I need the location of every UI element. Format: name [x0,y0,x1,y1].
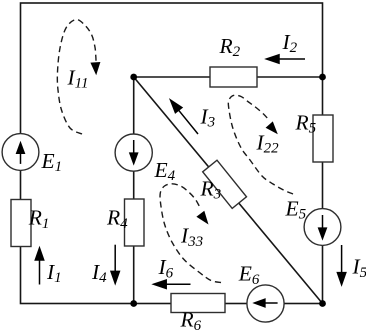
resistor R2 [210,67,257,87]
source E1 [2,134,39,171]
svg-text:E6: E6 [238,262,260,288]
E6 arrow left [262,302,278,304]
svg-text:E4: E4 [154,158,176,184]
svg-text:R1: R1 [28,206,50,232]
resistor R6 [171,294,225,313]
resistor R4 [125,199,145,246]
svg-text:I5: I5 [352,255,366,281]
wire R2 branch horizontal [134,76,323,78]
E1 arrow up [20,150,22,164]
svg-text:I11: I11 [67,66,89,92]
wire middle vertical branch [133,77,135,304]
loop I22 dashed ellipse [228,95,293,194]
svg-text:E5: E5 [285,197,307,223]
current I4 arrow [114,245,116,273]
svg-text:I1: I1 [46,260,62,286]
current I5 arrow [341,245,343,274]
current I3 arrow [178,109,199,134]
resistor R5 [313,115,333,162]
loop I11 dashed ellipse [57,19,96,134]
resistor R3 (rotated) [203,160,247,208]
E4 arrow down [133,140,135,155]
current I2 arrow [277,58,305,60]
current I6 arrow [164,283,191,285]
loop I11 arrowhead [90,62,100,75]
resistor R1 [11,200,31,247]
svg-text:I2: I2 [282,30,298,56]
wire diagonal branch [134,77,323,304]
svg-text:I22: I22 [256,131,280,157]
source E5 [304,209,341,246]
current I1 arrow [39,256,41,285]
svg-text:E1: E1 [41,149,63,175]
svg-text:I6: I6 [158,255,174,281]
E5 arrow down [322,215,324,230]
node bottom right [319,300,326,307]
svg-text:R2: R2 [219,34,241,60]
node bottom middle [130,300,137,307]
svg-text:I4: I4 [91,260,107,286]
wire outer border [21,3,323,304]
source E4 [115,134,152,171]
loop I22 arrowhead [266,121,278,134]
loop I33 arrowhead [196,211,208,225]
svg-text:I3: I3 [200,105,216,131]
source E6 [247,285,284,322]
loop I33 dashed ellipse [160,184,221,283]
node top middle [130,74,137,81]
node top right [319,74,326,81]
svg-text:I33: I33 [180,224,203,250]
